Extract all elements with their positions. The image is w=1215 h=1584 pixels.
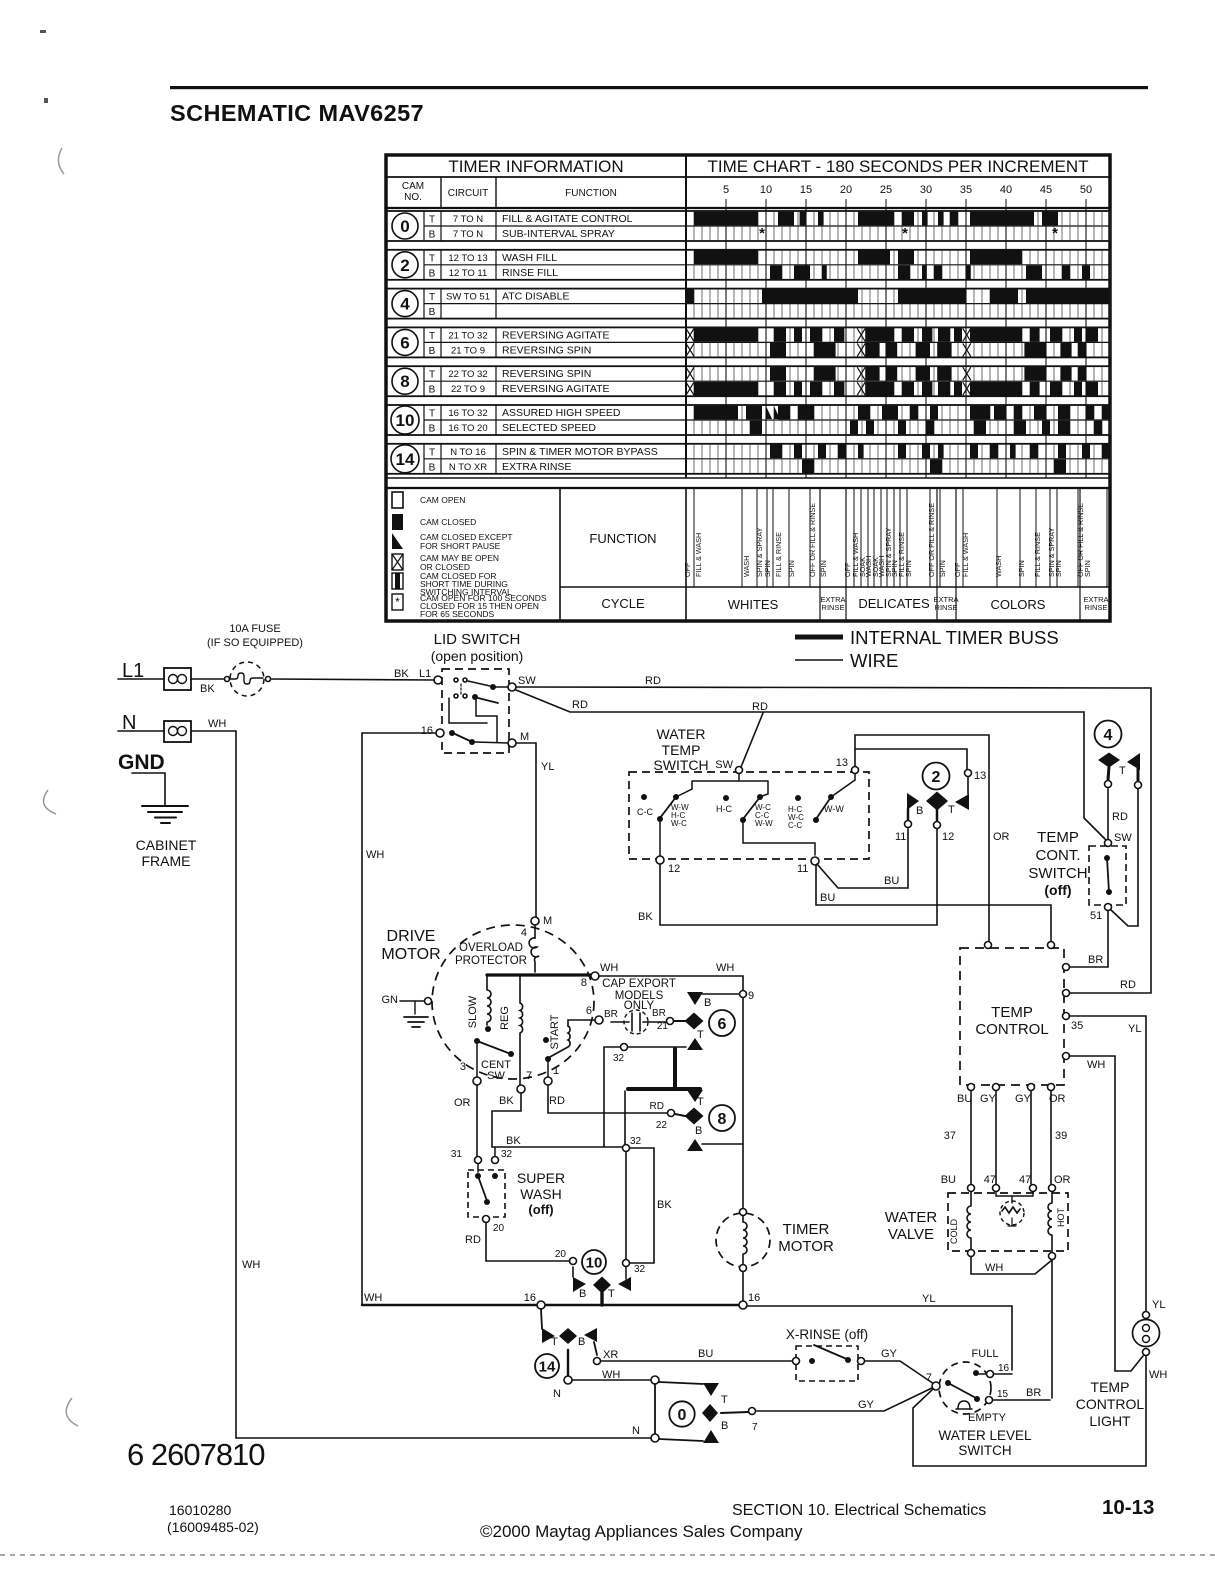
svg-text:0: 0 [400, 217, 409, 236]
svg-text:SW: SW [1114, 832, 1132, 844]
svg-text:0: 0 [678, 1407, 687, 1424]
svg-text:32: 32 [630, 1136, 642, 1147]
svg-text:WASH FILL: WASH FILL [502, 252, 557, 264]
svg-text:WH: WH [1087, 1059, 1105, 1071]
svg-text:CAM OPEN: CAM OPEN [420, 495, 465, 505]
svg-text:ATC DISABLE: ATC DISABLE [502, 291, 570, 303]
svg-text:SCHEMATIC MAV6257: SCHEMATIC MAV6257 [170, 100, 424, 126]
svg-text:20: 20 [555, 1249, 567, 1260]
svg-text:FILL & RINSE: FILL & RINSE [1033, 532, 1042, 577]
svg-text:20: 20 [840, 184, 852, 196]
svg-text:BK: BK [499, 1095, 514, 1107]
svg-text:WASH: WASH [994, 556, 1003, 577]
wire 51 to temp control BR [1069, 911, 1108, 967]
svg-text:35: 35 [960, 184, 972, 196]
svg-text:WH: WH [985, 1262, 1003, 1274]
svg-text:T: T [429, 370, 435, 381]
svg-text:FOR SHORT PAUSE: FOR SHORT PAUSE [420, 541, 501, 551]
svg-text:21 TO 32: 21 TO 32 [448, 330, 487, 341]
svg-text:16: 16 [524, 1292, 536, 1304]
svg-text:B: B [429, 307, 436, 318]
svg-text:FUNCTION: FUNCTION [589, 531, 656, 546]
svg-text:2: 2 [932, 769, 941, 786]
svg-text:GY: GY [881, 1348, 898, 1360]
wire N bottom [651, 1434, 659, 1442]
svg-text:T: T [697, 1029, 704, 1041]
svg-text:*: * [1052, 225, 1058, 242]
legend: cam open [392, 492, 403, 508]
svg-text:T: T [429, 447, 435, 458]
svg-text:SUPER: SUPER [517, 1170, 565, 1186]
svg-text:8: 8 [581, 977, 587, 989]
terminal 32 to motor BK riser [621, 1044, 628, 1051]
svg-text:W-C: W-C [671, 819, 687, 828]
svg-text:SW: SW [715, 759, 733, 771]
wire L1 to fuse [191, 678, 224, 680]
svg-text:CONTROL: CONTROL [1076, 1396, 1145, 1412]
terminal 9 [740, 991, 747, 998]
wire fuse to lid switch (BK) [271, 679, 434, 680]
svg-text:SWITCH: SWITCH [653, 757, 708, 773]
svg-text:TIMER: TIMER [783, 1221, 830, 1238]
svg-text:10: 10 [586, 1254, 603, 1271]
svg-text:BR: BR [1088, 954, 1103, 966]
svg-text:W-W: W-W [755, 819, 773, 828]
svg-text:BU: BU [884, 875, 899, 887]
wts contact H-C [723, 795, 729, 801]
cam switch 10 [582, 1250, 606, 1274]
chart major gridlines [686, 208, 1086, 478]
svg-text:EXTRA RINSE: EXTRA RINSE [502, 461, 571, 473]
svg-text:CAM: CAM [402, 181, 424, 192]
svg-text:*: * [395, 595, 400, 609]
svg-text:B: B [578, 1336, 585, 1348]
svg-text:6 2607810: 6 2607810 [127, 1437, 265, 1472]
svg-text:10A FUSE: 10A FUSE [229, 623, 280, 635]
wire BU: wts11 to cam2-11 [817, 828, 908, 888]
svg-text:12: 12 [668, 863, 680, 875]
svg-text:OFF OR FILL & RINSE: OFF OR FILL & RINSE [808, 503, 817, 577]
wire YL: buss to water level full [747, 1306, 1012, 1370]
wire 51 to cam4 T [1111, 789, 1138, 926]
svg-text:CYCLE: CYCLE [601, 596, 645, 611]
svg-text:CONT.: CONT. [1036, 847, 1081, 864]
svg-text:OFF: OFF [683, 562, 692, 577]
svg-text:16 TO 20: 16 TO 20 [448, 423, 487, 434]
svg-text:FUNCTION: FUNCTION [565, 188, 617, 199]
svg-text:(off): (off) [1044, 882, 1071, 898]
legend: cam closed for short time [392, 573, 403, 589]
svg-text:OR: OR [454, 1097, 471, 1109]
svg-text:16 TO 32: 16 TO 32 [448, 408, 487, 419]
svg-text:32: 32 [613, 1053, 625, 1064]
legend: cam closed except short pause [392, 533, 403, 549]
svg-text:FILL & WASH: FILL & WASH [961, 533, 970, 577]
svg-text:B: B [429, 346, 436, 357]
svg-text:B: B [429, 385, 436, 396]
svg-text:(open position): (open position) [431, 648, 524, 664]
svg-text:CABINET: CABINET [136, 837, 197, 853]
legend: cam may be open or closed [392, 554, 403, 570]
svg-text:20: 20 [493, 1223, 505, 1234]
svg-text:37: 37 [944, 1130, 956, 1142]
svg-text:YL: YL [1152, 1299, 1165, 1311]
svg-text:14: 14 [396, 450, 415, 469]
svg-text:RD: RD [645, 675, 661, 687]
svg-text:HOT: HOT [1056, 1208, 1066, 1228]
svg-text:SW: SW [518, 675, 536, 687]
wts terminal 12 [656, 856, 664, 864]
svg-text:CIRCUIT: CIRCUIT [448, 188, 489, 199]
svg-text:B: B [579, 1288, 586, 1300]
wire RD buss A: SW to temp control [516, 687, 1151, 993]
svg-text:W-W: W-W [824, 804, 844, 814]
svg-text:16: 16 [421, 725, 433, 737]
svg-text:REG: REG [499, 1006, 511, 1030]
svg-text:16010280: 16010280 [169, 1502, 232, 1518]
svg-text:RD: RD [650, 1101, 664, 1112]
svg-text:FOR 65 SECONDS: FOR 65 SECONDS [420, 609, 494, 619]
cam switch 4 [1095, 721, 1122, 748]
svg-text:(16009485-02): (16009485-02) [167, 1519, 259, 1535]
svg-text:PROTECTOR: PROTECTOR [455, 955, 527, 967]
svg-text:C-C: C-C [637, 807, 653, 817]
svg-text:FRAME: FRAME [142, 853, 191, 869]
svg-text:6: 6 [718, 1016, 727, 1033]
wire 16 to left riser (WH) [362, 732, 436, 734]
svg-text:WH: WH [600, 962, 618, 974]
legend + function/cycle section [386, 487, 1110, 489]
cam switch 8 [687, 1090, 703, 1102]
wire BU: XR to X-rinse [601, 1360, 792, 1362]
svg-text:VALVE: VALVE [888, 1226, 934, 1243]
cam 2 band [386, 250, 1110, 280]
svg-text:NO.: NO. [404, 192, 422, 203]
svg-text:WHITES: WHITES [728, 597, 779, 612]
svg-text:BK: BK [657, 1199, 672, 1211]
svg-text:MOTOR: MOTOR [778, 1238, 834, 1255]
svg-text:SPIN: SPIN [787, 560, 796, 577]
svg-text:WH: WH [208, 718, 226, 730]
svg-text:GN: GN [382, 994, 399, 1006]
svg-text:25: 25 [880, 184, 892, 196]
svg-text:OR: OR [993, 831, 1010, 843]
start winding [543, 1037, 549, 1043]
svg-text:BU: BU [820, 892, 835, 904]
svg-text:12 TO 11: 12 TO 11 [449, 268, 488, 279]
svg-text:RD: RD [1112, 811, 1128, 823]
wire YL: 35 to light [1069, 1016, 1146, 1311]
svg-text:WIRE: WIRE [850, 650, 898, 671]
svg-text:21 TO 9: 21 TO 9 [451, 345, 485, 356]
svg-text:3: 3 [460, 1061, 466, 1073]
svg-text:RD: RD [572, 699, 588, 711]
svg-text:L1: L1 [419, 668, 431, 680]
svg-text:WH: WH [364, 1292, 382, 1304]
wts arm 2 [757, 794, 763, 800]
svg-text:GY: GY [980, 1093, 997, 1105]
wire WH: N to cam0 [572, 1379, 651, 1381]
wire BU: wts11 to temp control [816, 865, 1051, 941]
column header row [386, 207, 1110, 209]
svg-text:35: 35 [1071, 1020, 1083, 1032]
svg-text:15: 15 [997, 1389, 1009, 1400]
svg-text:SPIN: SPIN [763, 560, 772, 577]
cam 10 band [386, 405, 1110, 435]
svg-text:10-13: 10-13 [1102, 1496, 1154, 1519]
svg-text:RD: RD [465, 1234, 481, 1246]
svg-text:21: 21 [657, 1021, 669, 1032]
svg-text:4: 4 [400, 295, 410, 314]
svg-text:T: T [1119, 765, 1126, 777]
svg-text:SUB-INTERVAL SPRAY: SUB-INTERVAL SPRAY [502, 228, 615, 240]
thermal resistor [996, 1192, 1033, 1203]
svg-text:SPIN: SPIN [938, 560, 947, 577]
svg-text:WH: WH [716, 962, 734, 974]
legend: cam open 100 seconds [392, 594, 403, 610]
svg-text:N TO 16: N TO 16 [450, 447, 486, 458]
svg-text:RINSE: RINSE [1085, 603, 1108, 612]
svg-text:*: * [902, 225, 908, 242]
svg-text:GND: GND [118, 751, 165, 774]
svg-text:H-C: H-C [716, 804, 732, 814]
svg-text:M: M [520, 731, 529, 743]
cam switch 6 [687, 992, 703, 1005]
wire 16 buss [362, 1304, 743, 1306]
svg-text:SELECTED SPEED: SELECTED SPEED [502, 422, 596, 434]
wire BR: hot valve to level switch 15 [1051, 1260, 1053, 1398]
svg-text:REVERSING AGITATE: REVERSING AGITATE [502, 329, 610, 341]
top rule [170, 86, 1148, 89]
temp control module [960, 948, 1064, 1085]
svg-text:13: 13 [836, 757, 848, 769]
thick buss cam6 T to cam8 T [673, 1049, 677, 1089]
svg-text:7 TO N: 7 TO N [453, 214, 483, 225]
cam 8 band [386, 366, 1110, 396]
svg-text:BR: BR [604, 1009, 618, 1020]
svg-text:COLD: COLD [949, 1218, 959, 1244]
svg-text:8: 8 [718, 1111, 727, 1128]
svg-text:7: 7 [752, 1422, 758, 1433]
svg-text:47: 47 [1019, 1174, 1031, 1186]
svg-text:SLOW: SLOW [467, 995, 479, 1028]
svg-text:BR: BR [1026, 1387, 1041, 1399]
wire legend [795, 659, 843, 661]
svg-text:TEMP: TEMP [991, 1004, 1033, 1021]
svg-text:REVERSING AGITATE: REVERSING AGITATE [502, 383, 610, 395]
svg-text:22 TO 9: 22 TO 9 [451, 384, 485, 395]
svg-text:4: 4 [521, 927, 527, 939]
wire M to drive motor (YL) [516, 743, 536, 917]
svg-text:12: 12 [942, 831, 954, 843]
svg-text:9: 9 [748, 990, 754, 1002]
svg-text:LID SWITCH: LID SWITCH [434, 631, 521, 648]
svg-text:SPIN & TIMER MOTOR BYPASS: SPIN & TIMER MOTOR BYPASS [502, 446, 658, 458]
svg-text:SPIN: SPIN [1054, 560, 1063, 577]
wire WH water valve bottom [971, 1257, 1052, 1274]
svg-text:B: B [429, 462, 436, 473]
svg-text:EMPTY: EMPTY [968, 1412, 1007, 1424]
cam 4 band [386, 289, 1110, 319]
svg-text:*: * [759, 225, 765, 242]
svg-text:INTERNAL TIMER BUSS: INTERNAL TIMER BUSS [850, 627, 1059, 648]
svg-text:10: 10 [396, 411, 415, 430]
svg-text:FILL & AGITATE CONTROL: FILL & AGITATE CONTROL [502, 213, 633, 225]
internal timer buss legend [795, 635, 843, 640]
svg-text:2: 2 [400, 256, 409, 275]
svg-text:22: 22 [656, 1120, 668, 1131]
svg-text:SPIN: SPIN [1017, 560, 1026, 577]
svg-text:T: T [429, 331, 435, 342]
wire GY: x-rinse to water level 7 [865, 1361, 934, 1384]
bell symbol [956, 1401, 972, 1409]
svg-text:RD: RD [549, 1095, 565, 1107]
svg-text:T: T [948, 804, 955, 816]
svg-text:B: B [916, 805, 923, 817]
svg-text:51: 51 [1090, 910, 1102, 922]
super wash switch S4 [475, 1157, 482, 1164]
svg-text:50: 50 [1080, 184, 1092, 196]
svg-text:SW TO 51: SW TO 51 [446, 292, 490, 303]
svg-text:7: 7 [526, 1070, 532, 1082]
water level switch S6 [939, 1362, 991, 1414]
svg-text:31: 31 [451, 1149, 463, 1160]
svg-text:T: T [721, 1394, 728, 1406]
svg-text:DRIVE: DRIVE [387, 928, 436, 945]
wire: water level 7 down to bottom run [913, 1356, 1146, 1466]
wts contact C-C [641, 794, 647, 800]
timer table outer frame [386, 155, 1110, 621]
svg-text:BU: BU [941, 1174, 956, 1186]
wire WH buss: overload 8 to timer motor [591, 972, 599, 980]
cam 14 band [386, 444, 1110, 474]
svg-text:M: M [543, 915, 552, 927]
svg-text:WH: WH [242, 1259, 260, 1271]
svg-text:32: 32 [501, 1149, 513, 1160]
wires temp control to water valve [970, 1091, 972, 1184]
svg-text:22 TO 32: 22 TO 32 [448, 369, 487, 380]
svg-text:N: N [632, 1425, 640, 1437]
cam switch 0 [654, 1384, 656, 1435]
svg-text:BK: BK [506, 1135, 521, 1147]
svg-text:4: 4 [1104, 727, 1113, 744]
cam0 terminal 7 [721, 1412, 748, 1413]
cam 0 band [386, 211, 1110, 242]
svg-text:B: B [695, 1125, 702, 1137]
function column lines [694, 488, 1107, 587]
svg-text:CAP EXPORT: CAP EXPORT [602, 978, 676, 990]
svg-text:OFF OR FILL & RINSE: OFF OR FILL & RINSE [927, 503, 936, 577]
svg-text:5: 5 [723, 184, 729, 196]
svg-text:11: 11 [895, 831, 906, 843]
svg-text:WASH: WASH [742, 556, 751, 577]
svg-text:B: B [429, 268, 436, 279]
svg-text:10: 10 [760, 184, 772, 196]
svg-text:BU: BU [957, 1093, 972, 1105]
svg-text:(off): (off) [528, 1202, 553, 1217]
svg-text:T: T [429, 292, 435, 303]
svg-text:START: START [549, 1014, 561, 1049]
svg-text:T: T [429, 253, 435, 264]
wire 6 to capacitor [568, 1020, 595, 1026]
svg-text:SPIN: SPIN [904, 560, 913, 577]
svg-text:ASSURED HIGH SPEED: ASSURED HIGH SPEED [502, 407, 621, 419]
svg-text:REVERSING SPIN: REVERSING SPIN [502, 368, 591, 380]
svg-text:YL: YL [541, 761, 554, 773]
svg-text:FILL & RINSE: FILL & RINSE [774, 532, 783, 577]
svg-text:B: B [704, 997, 711, 1009]
scan artifact dotted line [0, 1554, 1215, 1556]
scanner speckles [40, 30, 48, 103]
wire 13 to cam2 and OR [855, 735, 989, 941]
svg-text:RINSE: RINSE [822, 603, 845, 612]
svg-text:SWITCH: SWITCH [958, 1443, 1011, 1458]
svg-text:(IF SO EQUIPPED): (IF SO EQUIPPED) [207, 637, 303, 649]
svg-text:WH: WH [366, 849, 384, 861]
legend: cam closed [392, 514, 403, 530]
svg-text:BU: BU [698, 1348, 713, 1360]
svg-text:SPIN: SPIN [819, 560, 828, 577]
wire BK: wts12 to cam2-12 [660, 829, 937, 925]
wts terminal 11 [811, 857, 819, 865]
svg-text:©2000 Maytag Appliances Sales: ©2000 Maytag Appliances Sales Company [480, 1522, 803, 1541]
wts internal bus [678, 774, 768, 796]
svg-text:X-RINSE (off): X-RINSE (off) [786, 1327, 868, 1342]
wts contact H-C 2 [795, 795, 801, 801]
svg-text:T: T [429, 409, 435, 420]
svg-text:TEMP: TEMP [662, 742, 701, 758]
svg-text:N TO XR: N TO XR [449, 462, 487, 473]
svg-text:YL: YL [922, 1293, 935, 1305]
svg-text:WATER: WATER [885, 1209, 938, 1226]
cam switch 2 [923, 763, 950, 790]
svg-text:45: 45 [1040, 184, 1052, 196]
timer motor M2 [716, 1213, 770, 1267]
cam switch 14 [541, 1309, 542, 1329]
svg-text:RD: RD [1120, 979, 1136, 991]
svg-text:14: 14 [539, 1358, 556, 1375]
svg-text:30: 30 [920, 184, 932, 196]
svg-text:FILL & WASH: FILL & WASH [694, 533, 703, 577]
svg-text:TIME CHART - 180 SECONDS PER I: TIME CHART - 180 SECONDS PER INCREMENT [708, 157, 1089, 176]
svg-text:TIMER INFORMATION: TIMER INFORMATION [448, 157, 623, 176]
svg-text:13: 13 [974, 770, 986, 782]
svg-text:GY: GY [858, 1399, 875, 1411]
svg-text:WATER: WATER [657, 726, 706, 742]
svg-text:7 TO N: 7 TO N [453, 229, 483, 240]
hot solenoid [1048, 1192, 1052, 1252]
svg-text:T: T [429, 215, 435, 226]
svg-text:TEMP: TEMP [1037, 829, 1079, 846]
svg-text:FULL: FULL [972, 1348, 999, 1360]
svg-text:OR: OR [1054, 1174, 1071, 1186]
svg-text:SECTION 10. Electrical Sche: SECTION 10. Electrical Schematics [732, 1502, 986, 1519]
svg-text:N: N [553, 1388, 561, 1400]
cam 6 band [386, 327, 1110, 357]
wts arm 1 [673, 794, 679, 800]
svg-text:SWITCH: SWITCH [1028, 865, 1087, 882]
temp control light DS1 [1143, 1312, 1150, 1319]
svg-text:C-C: C-C [788, 821, 802, 830]
svg-text:11: 11 [797, 863, 808, 875]
wts terminal 13 [852, 767, 859, 774]
wts arm 3 [828, 794, 834, 800]
svg-text:WATER LEVEL: WATER LEVEL [938, 1428, 1032, 1443]
wire GY: cam0-7 to water level 7 [756, 1388, 932, 1411]
svg-text:6: 6 [400, 333, 409, 352]
svg-text:32: 32 [634, 1264, 646, 1275]
svg-text:COLORS: COLORS [991, 597, 1046, 612]
